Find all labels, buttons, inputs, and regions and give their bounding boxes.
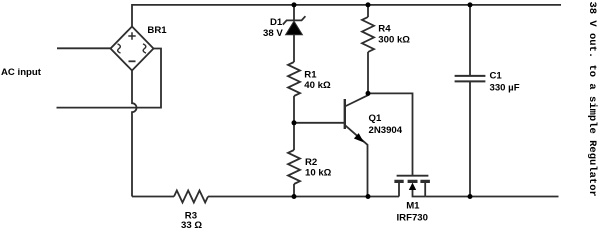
svg-text:38 V out. to a simple Regulato: 38 V out. to a simple Regulator bbox=[586, 2, 598, 197]
wire bottom rail middle bbox=[208, 196, 399, 198]
svg-text:AC input: AC input bbox=[1, 67, 42, 78]
junction node top R4 bbox=[366, 2, 371, 7]
svg-text:33 Ω: 33 Ω bbox=[181, 220, 202, 229]
wire R4 top lead bbox=[367, 5, 369, 17]
bridge rectifier BR1 bbox=[111, 27, 154, 71]
wire C1 bottom lead bbox=[469, 81, 471, 196]
svg-text:330 µF: 330 µF bbox=[490, 82, 520, 93]
transistor Q1 emitter bbox=[345, 125, 368, 197]
bridge minus terminal bbox=[129, 60, 136, 62]
wire AC input top lead bbox=[57, 47, 111, 49]
svg-text:R4: R4 bbox=[378, 24, 391, 35]
transistor Q1 base bar bbox=[344, 99, 346, 129]
junction node top R1 bbox=[292, 2, 297, 7]
svg-text:D1: D1 bbox=[270, 17, 283, 28]
svg-text:BR1: BR1 bbox=[147, 25, 167, 36]
transistor Q1 emitter arrow bbox=[354, 133, 364, 142]
bridge left ac tilde bbox=[118, 44, 121, 53]
transistor Q1 collector bbox=[345, 93, 368, 106]
junction node R1 R2 base bbox=[292, 120, 297, 125]
junction node emitter bottom bbox=[366, 194, 371, 199]
svg-text:300 kΩ: 300 kΩ bbox=[378, 34, 410, 45]
svg-text:IRF730: IRF730 bbox=[397, 213, 428, 224]
junction node R2 bottom bbox=[292, 194, 297, 199]
resistor R3 bbox=[174, 191, 208, 203]
mosfet M1 drain lead bbox=[398, 183, 400, 197]
junction node top C1 bbox=[468, 2, 473, 7]
wire base node to Q1 bbox=[294, 122, 345, 124]
wire node to R2 bbox=[293, 123, 295, 150]
mosfet M1 body arrow bbox=[409, 183, 416, 190]
svg-text:C1: C1 bbox=[490, 71, 503, 82]
svg-text:R2: R2 bbox=[305, 157, 317, 168]
svg-text:38 V: 38 V bbox=[263, 28, 283, 39]
wire R4 to collector node bbox=[367, 52, 369, 93]
bridge plus terminal bbox=[128, 32, 135, 39]
svg-text:40 kΩ: 40 kΩ bbox=[304, 80, 331, 91]
bridge right ac tilde bbox=[143, 44, 146, 53]
wire bottom rail left bbox=[132, 196, 174, 198]
mosfet M1 source lead bbox=[424, 183, 426, 197]
resistor R1 bbox=[288, 62, 300, 96]
svg-text:M1: M1 bbox=[406, 201, 420, 212]
wire R2 to bottom rail bbox=[293, 184, 295, 197]
svg-text:10 kΩ: 10 kΩ bbox=[305, 168, 332, 179]
mosfet M1 gate plate bbox=[397, 175, 429, 177]
wire C1 top lead bbox=[469, 5, 471, 76]
wire bottom rail right bbox=[425, 196, 558, 198]
junction node C1 bottom bbox=[468, 194, 473, 199]
zener diode D1 cathode bar bbox=[283, 16, 306, 24]
svg-text:Q1: Q1 bbox=[369, 113, 382, 124]
svg-text:R1: R1 bbox=[304, 69, 317, 80]
resistor R2 bbox=[288, 150, 300, 184]
wire AC input bottom lead to bridge right ~ bbox=[57, 49, 162, 108]
zener diode D1 anode triangle bbox=[286, 21, 303, 35]
junction node collector R4 gate bbox=[366, 91, 371, 96]
svg-text:2N3904: 2N3904 bbox=[369, 125, 403, 136]
wire collector node to M1 gate bbox=[368, 93, 413, 175]
wire R1 to node bbox=[293, 96, 295, 123]
mosfet M1 channel bars bbox=[394, 180, 430, 183]
wire top rail from bridge + to right edge bbox=[132, 5, 561, 27]
wire D1 top lead bbox=[293, 5, 295, 21]
resistor R4 bbox=[362, 17, 374, 52]
wire bridge - lead down to bottom rail with hop over AC wire bbox=[132, 71, 137, 197]
capacitor C1 plates bbox=[455, 76, 486, 82]
mosfet M1 body lead bbox=[413, 187, 426, 197]
wire D1 to R1 bbox=[293, 35, 295, 62]
